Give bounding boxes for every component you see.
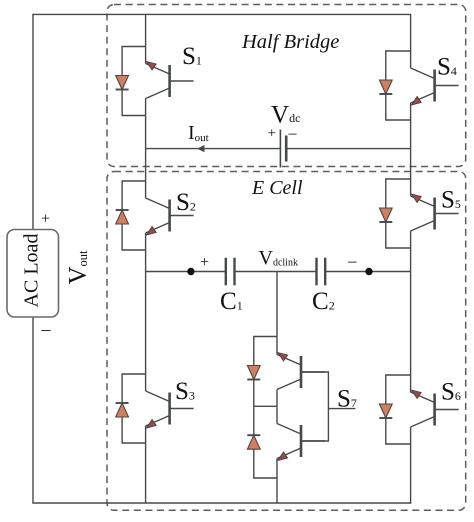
wire: S7 emitter to bottom bus xyxy=(276,459,278,504)
diode of S1 xyxy=(116,76,129,90)
svg-text:S3: S3 xyxy=(175,378,195,405)
capacitor C2 xyxy=(317,258,326,286)
wire: S5 freewheel-diode branch xyxy=(386,179,411,248)
battery Vdc xyxy=(280,130,286,168)
svg-text:Vout: Vout xyxy=(65,250,92,285)
wire: dc-link midpoint tap down to S7 xyxy=(276,272,278,355)
wire: S4 freewheel-diode branch xyxy=(386,51,411,120)
wire: S2 freewheel-diode branch xyxy=(122,181,146,250)
svg-text:S2: S2 xyxy=(176,189,196,216)
wire: S2 collector lead from mid rail xyxy=(145,149,147,198)
wire: mid rail right xyxy=(286,148,410,150)
wire: S1 collector lead xyxy=(145,14,147,63)
wire: AC load bottom lead xyxy=(32,317,34,503)
diode of S3 xyxy=(116,403,129,417)
diode of S2 xyxy=(116,210,129,224)
wire: S7 base tie xyxy=(301,372,328,441)
wire: top bus xyxy=(32,13,411,15)
svg-text:Half Bridge: Half Bridge xyxy=(241,31,339,53)
wire: S1 emitter lead to mid rail xyxy=(145,99,147,149)
wire: bottom bus xyxy=(32,502,411,504)
wire: dc-link rail left segment xyxy=(146,271,226,273)
transistor S4 (IGBT symbol) xyxy=(411,68,459,105)
wire: S6 emitter to bottom bus xyxy=(410,427,412,503)
wire: dc-link rail right segment xyxy=(325,271,410,273)
diode D7b xyxy=(247,435,260,449)
wire: S3 emitter to bottom bus xyxy=(145,426,147,503)
transistor S5 (IGBT symbol) xyxy=(411,194,459,231)
junction node (dc-link +) xyxy=(187,268,194,275)
wire: S7 middle link xyxy=(276,390,278,424)
transistor S3 (IGBT symbol) xyxy=(146,391,194,428)
AC Load box xyxy=(7,230,59,318)
wire: S6 freewheel-diode branch xyxy=(386,375,411,444)
dashed box: E Cell xyxy=(107,172,466,511)
wire: S2 emitter to dc-link rail xyxy=(145,233,147,272)
svg-text:–: – xyxy=(41,319,52,339)
svg-text:S4: S4 xyxy=(437,54,457,81)
wire: mid rail left (half-bridge output) xyxy=(146,148,281,150)
transistor S7b (IGBT symbol) xyxy=(277,424,325,461)
dashed box: Half Bridge xyxy=(107,5,466,167)
svg-text:S5: S5 xyxy=(441,187,461,214)
wire: S7 gate stub xyxy=(328,408,355,410)
wire: dc-link rail middle segment xyxy=(235,271,317,273)
current arrow Iout xyxy=(197,145,205,152)
svg-text:C2: C2 xyxy=(312,288,335,315)
svg-text:Vdclink: Vdclink xyxy=(259,247,298,269)
svg-text:E Cell: E Cell xyxy=(251,177,303,199)
svg-text:S7: S7 xyxy=(337,386,357,413)
svg-text:Iout: Iout xyxy=(188,122,209,144)
transistor S2 (IGBT symbol) xyxy=(146,198,194,235)
svg-text:C1: C1 xyxy=(220,288,243,315)
wire: S6 collector lead from dc-link xyxy=(410,272,412,393)
svg-text:AC Load: AC Load xyxy=(21,234,43,308)
diode of S5 xyxy=(379,208,392,222)
capacitor C1 xyxy=(226,258,235,286)
wire: S1 freewheel-diode branch xyxy=(122,47,146,116)
wire: S4 emitter lead to mid rail xyxy=(410,103,412,149)
wire: S5 emitter to dc-link rail xyxy=(410,231,412,272)
svg-text:–: – xyxy=(347,251,357,270)
diode D7a xyxy=(247,366,260,380)
wire: S3 freewheel-diode branch xyxy=(122,374,146,443)
transistor S7a (IGBT symbol) xyxy=(277,353,325,390)
svg-text:+: + xyxy=(41,211,50,228)
svg-text:S6: S6 xyxy=(441,379,461,406)
wire: S5 collector lead from mid rail xyxy=(410,149,412,196)
diode of S6 xyxy=(379,404,392,418)
diode of S4 xyxy=(379,80,392,94)
wire: S3 collector lead from dc-link xyxy=(145,272,147,392)
transistor S6 (IGBT symbol) xyxy=(411,390,459,427)
wire: S7 clamp-diode branch xyxy=(254,337,277,479)
junction node (dc-link -) xyxy=(365,268,372,275)
svg-text:+: + xyxy=(268,126,276,142)
wire: S7 diode midpoint tap xyxy=(254,405,277,407)
svg-text:+: + xyxy=(200,254,209,271)
svg-text:–: – xyxy=(288,125,298,142)
svg-text:S1: S1 xyxy=(182,43,202,70)
wire: S4 collector lead xyxy=(410,14,412,68)
transistor S1 (IGBT symbol) xyxy=(146,62,194,99)
wire: AC load top lead xyxy=(32,14,34,229)
